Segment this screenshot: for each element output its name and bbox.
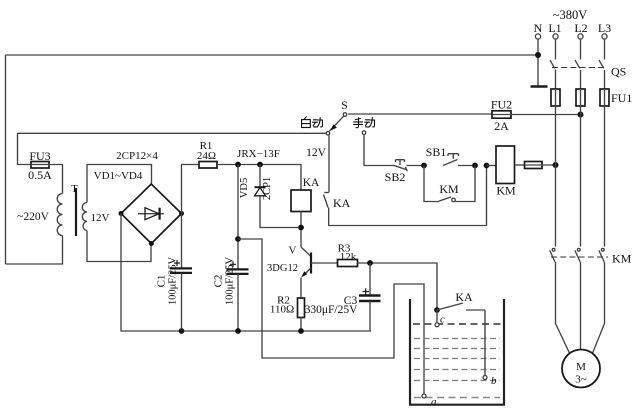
wire R3 to tank node	[358, 263, 438, 310]
dashes QS link	[552, 67, 607, 69]
label 2A	[494, 119, 509, 133]
wire 220V live rail	[18, 132, 327, 134]
wire left outer vertical	[5, 55, 7, 264]
terminal N	[535, 34, 540, 86]
contactor KM main pole L3	[593, 248, 605, 353]
label QS	[611, 65, 626, 79]
resistor R3	[338, 260, 358, 267]
label R3	[338, 243, 351, 255]
label C3	[344, 295, 358, 307]
node L2 tap	[578, 112, 584, 118]
label R2	[277, 295, 290, 307]
switch QS pole L2	[575, 34, 583, 68]
diode inside bridge	[138, 208, 164, 220]
svg-text:C1: C1	[156, 275, 168, 288]
relay coil KA	[291, 190, 311, 212]
label C2	[213, 275, 225, 288]
label 12V secondary	[91, 212, 110, 224]
wire bridge plus up to rail	[182, 165, 200, 214]
svg-text:~380V: ~380V	[553, 8, 588, 22]
resistor R2	[298, 298, 305, 331]
node R3 C3	[367, 260, 373, 266]
electrode c	[435, 310, 439, 327]
label C2 value	[225, 256, 236, 305]
label c	[440, 314, 445, 326]
node manual contact	[362, 131, 366, 135]
fuse FU3	[31, 162, 49, 169]
label SB2	[385, 170, 406, 184]
label KA coil	[303, 177, 320, 189]
wire manual to SB2	[364, 135, 394, 166]
label KM main	[612, 252, 632, 266]
svg-text:100μF/25V: 100μF/25V	[225, 256, 236, 305]
wire FU3 drop	[18, 133, 32, 165]
svg-text:KM: KM	[612, 252, 632, 266]
node KA/VD5/collector	[298, 225, 304, 231]
label manual	[354, 117, 375, 127]
wire secondary bottom to bridge	[87, 231, 151, 262]
svg-text:KA: KA	[333, 196, 351, 210]
node rail VD5 tap	[257, 162, 263, 168]
label 3~	[575, 374, 587, 386]
diode VD5	[255, 165, 299, 228]
svg-text:C2: C2	[213, 275, 225, 288]
fuse FU1 pole L2	[576, 70, 585, 247]
label L1	[548, 21, 561, 35]
svg-text:2CP1: 2CP1	[262, 177, 273, 200]
svg-text:KM: KM	[496, 184, 516, 198]
svg-text:L1: L1	[548, 21, 561, 35]
wire plus to electrode a	[238, 239, 424, 394]
svg-text:S: S	[341, 98, 348, 112]
switch QS pole L3	[599, 34, 607, 68]
dashes KM link	[551, 256, 608, 258]
svg-text:~220V: ~220V	[17, 211, 49, 223]
contactor KM main pole L1	[550, 248, 570, 353]
svg-text:b: b	[491, 375, 497, 387]
svg-text:12V: 12V	[91, 212, 110, 224]
svg-text:VD5: VD5	[239, 178, 250, 198]
label 12V dc	[306, 147, 327, 159]
fuse small right of KM	[515, 162, 556, 169]
capacitor C1	[170, 214, 192, 332]
svg-text:24Ω: 24Ω	[197, 150, 216, 162]
label KM coil	[496, 184, 516, 198]
label KA contact	[333, 196, 351, 210]
resistor R1	[199, 162, 217, 169]
node rail R2	[298, 328, 304, 334]
capacitor C3	[359, 263, 381, 331]
label M	[576, 361, 586, 373]
node L1 tap	[553, 162, 559, 168]
tank walls	[409, 299, 505, 405]
electrode a terminal	[422, 394, 426, 398]
label S	[341, 98, 348, 112]
label V	[289, 245, 297, 257]
svg-text:L2: L2	[574, 21, 587, 35]
node C2 branch	[235, 236, 241, 242]
wire to KM coil	[487, 165, 497, 167]
label 110ohm	[270, 304, 294, 316]
wire FU3 to transformer primary	[49, 165, 63, 194]
svg-text:c: c	[440, 314, 445, 326]
transformer T primary winding	[57, 194, 62, 236]
label 3DG12	[267, 263, 298, 274]
wire top rail from N to left side	[6, 54, 538, 56]
label 0.5A	[28, 168, 52, 182]
label T	[71, 183, 78, 195]
transistor V 3DG12	[301, 247, 311, 298]
svg-text:VD1~VD4: VD1~VD4	[94, 170, 143, 182]
contact KA tank	[437, 303, 485, 310]
svg-text:2CP12×4: 2CP12×4	[116, 150, 158, 162]
node auto contact	[326, 132, 330, 136]
label SB1	[426, 145, 447, 159]
node KM coil input	[484, 163, 490, 169]
svg-text:12k: 12k	[340, 251, 357, 263]
label L3	[598, 21, 611, 35]
svg-text:T: T	[71, 183, 78, 195]
svg-text:2A: 2A	[494, 119, 509, 133]
label 12k	[340, 251, 357, 263]
svg-text:L3: L3	[598, 21, 611, 35]
button SB2	[394, 160, 425, 172]
label L2	[574, 21, 587, 35]
label auto	[302, 117, 323, 128]
switch S	[329, 113, 347, 132]
label KM aux	[439, 182, 459, 196]
svg-text:330μF/25V: 330μF/25V	[305, 304, 359, 316]
label 24ohm	[197, 150, 216, 162]
wire base to R3	[311, 262, 338, 264]
svg-text:100μF/25V: 100μF/25V	[168, 256, 179, 305]
svg-text:M: M	[576, 361, 586, 373]
label KA tank	[455, 290, 473, 304]
transformer T core	[75, 188, 77, 236]
label C1	[156, 275, 168, 288]
svg-text:a: a	[431, 396, 437, 408]
svg-text:FU1: FU1	[611, 91, 632, 105]
button SB1	[443, 154, 475, 166]
node rail C1	[179, 328, 185, 334]
label FU2	[491, 98, 512, 112]
label 2CP1	[262, 177, 273, 200]
transformer T secondary winding	[82, 203, 87, 231]
wire KA coil bottom	[300, 212, 302, 248]
label N	[534, 21, 543, 35]
bridge rectifier VD1~VD4	[121, 184, 182, 244]
wire primary bottom	[6, 236, 63, 265]
svg-text:QS: QS	[611, 65, 626, 79]
wire ground rail	[121, 214, 371, 332]
wire 12V dc rail	[217, 165, 301, 191]
svg-text:3DG12: 3DG12	[267, 263, 298, 274]
wire FU2 to L2	[511, 114, 581, 116]
label FU1	[611, 91, 632, 105]
contact KM aux	[424, 166, 475, 203]
svg-text:12V: 12V	[306, 147, 327, 159]
fuse FU2	[492, 111, 511, 118]
capacitor C2	[227, 165, 249, 332]
water dashes rows	[414, 339, 500, 398]
svg-text:110Ω: 110Ω	[270, 304, 294, 316]
svg-text:FU3: FU3	[29, 149, 50, 163]
label b	[491, 375, 497, 387]
bar N end	[531, 85, 548, 88]
svg-text:V: V	[289, 245, 297, 257]
svg-text:0.5A: 0.5A	[28, 168, 52, 182]
svg-text:SB1: SB1	[426, 145, 447, 159]
label VD1~VD4	[94, 170, 143, 182]
svg-text:FU2: FU2	[491, 98, 512, 112]
node N rail	[535, 52, 541, 58]
svg-text:KA: KA	[303, 177, 320, 189]
svg-text:KM: KM	[439, 182, 459, 196]
fuse FU1 pole L1	[551, 70, 560, 247]
svg-text:JRX−13F: JRX−13F	[237, 148, 280, 160]
node bridge corners	[119, 211, 185, 246]
fuse FU1 pole L3	[600, 70, 609, 247]
svg-text:KA: KA	[455, 290, 473, 304]
label VD5	[239, 178, 250, 198]
wire S to FU2	[348, 113, 492, 115]
label R1	[200, 140, 213, 152]
label a	[431, 396, 437, 408]
wire secondary top to bridge	[87, 165, 152, 203]
label 2CP12x4	[116, 150, 158, 162]
motor M	[562, 350, 600, 388]
svg-text:N: N	[534, 21, 543, 35]
contact KA nc auto branch	[324, 135, 487, 225]
node SB junction right	[472, 163, 478, 169]
label JRX-13F	[237, 148, 280, 160]
electrode b	[483, 310, 487, 380]
node SB junction left	[421, 163, 427, 169]
switch QS pole L1	[550, 34, 558, 68]
svg-text:SB2: SB2	[385, 170, 406, 184]
node tank KA pivot	[434, 307, 440, 313]
label 330uF/25V	[305, 304, 359, 316]
label FU3	[29, 149, 50, 163]
label ~220V	[17, 211, 49, 223]
node rail C2	[235, 328, 241, 334]
label C1 value	[168, 256, 179, 305]
node rail C2 tap	[235, 162, 241, 168]
contactor KM main pole L2	[575, 248, 581, 349]
svg-text:3~: 3~	[575, 374, 587, 386]
water surface	[413, 323, 501, 325]
label ~380V	[553, 8, 588, 22]
contactor coil KM	[496, 146, 515, 184]
